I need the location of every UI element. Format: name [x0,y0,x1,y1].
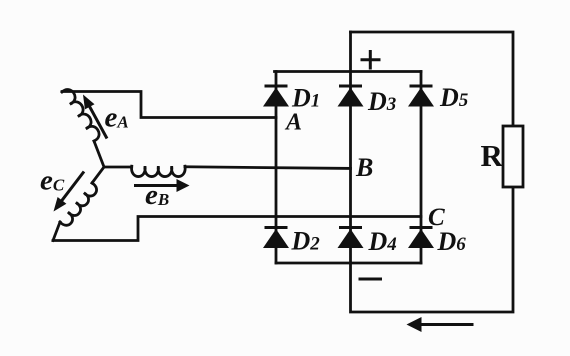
plus terminal [361,50,381,70]
wire top bus (+ rail) [275,70,422,73]
svg-text:B: B [355,153,373,182]
wire phase-B: node to coil to bridge [104,166,132,169]
diode D4 [339,226,362,229]
arrow eA emf direction [88,103,107,138]
wire bottom bus (- rail) [276,262,421,265]
wire bridge column 2 (phase B leg) with riser to + [349,32,352,263]
svg-text:A: A [284,110,302,136]
wire bridge column 1 (phase A leg) [275,72,278,264]
wire eA coil to node [94,141,104,167]
wire bridge column 3 (phase C leg) [420,72,423,264]
arrow eB emf direction [134,184,180,187]
diode D3 [339,85,362,88]
wire phase-A top: corner to step to node A [62,92,276,118]
diode D2 [265,226,288,229]
winding eC (phase C coil) [60,183,97,225]
wire top loop to load [351,32,514,126]
diode D1 [265,85,288,88]
resistor R [503,126,523,187]
arrow eC emf direction [59,172,84,204]
wire phase-C bottom: corner, step up, C line to column 3 [53,217,421,241]
arrow load current direction [417,323,474,326]
svg-text:R: R [481,138,504,173]
winding eA (phase A coil) [62,89,99,141]
wire load to bottom loop [351,187,514,312]
diode D5 [410,85,433,88]
diode D6 [410,226,433,229]
minus terminal [359,278,383,281]
wire B line to bridge column 2 [185,167,351,169]
wire eC coil to corner [53,222,60,241]
winding eB (phase B coil) [132,166,186,176]
wire node to eC coil [92,167,104,183]
